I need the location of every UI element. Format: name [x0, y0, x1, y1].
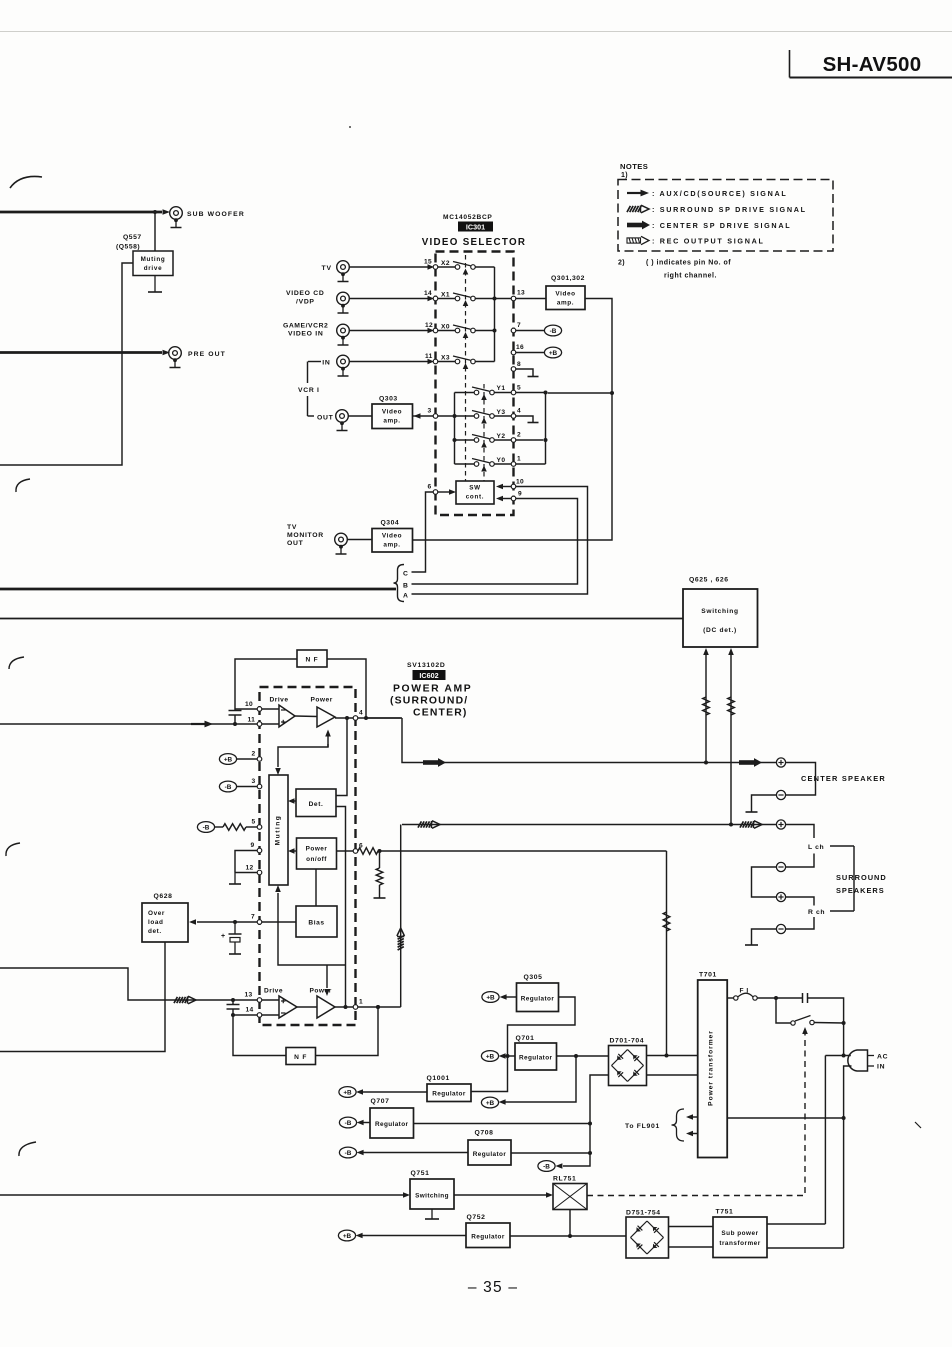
svg-text:Switching: Switching [701, 608, 738, 615]
wire bias to pin7 [262, 921, 296, 923]
-B supply pin3 [219, 781, 236, 792]
svg-text:+B: +B [343, 1089, 352, 1096]
arrowhead Q305 to +B [500, 994, 507, 1000]
svg-text:11: 11 [248, 717, 256, 724]
svg-text:11: 11 [425, 353, 433, 360]
wire A to pin10 [412, 487, 588, 595]
svg-text:-B: -B [345, 1120, 352, 1127]
svg-text:– 35 –: – 35 – [468, 1279, 518, 1296]
ground pin6 divider [374, 897, 386, 899]
center drive arrow 1 [423, 758, 446, 767]
wire plug top contact [825, 1055, 850, 1057]
wire Q625 sense center [705, 655, 707, 763]
wire drive to power top [295, 715, 317, 718]
svg-text:2): 2) [618, 260, 625, 267]
svg-text:Video: Video [382, 533, 402, 540]
svg-text:+B: +B [343, 1233, 352, 1240]
wire game to pin12 [350, 330, 429, 332]
resistor pin6 to ground [376, 851, 383, 898]
node surround line tap [729, 823, 733, 827]
svg-text:-B: -B [345, 1150, 352, 1157]
switch Y0 [455, 457, 512, 466]
wire cap stubs bottom [232, 1000, 234, 1015]
arrowhead down into power bottom [324, 989, 330, 996]
svg-text:4: 4 [359, 710, 363, 717]
svg-text:Y1: Y1 [497, 385, 506, 392]
terminal surround L+ [776, 820, 785, 829]
jack SUB WOOFER [170, 207, 183, 228]
arrowhead Q752 to +B [356, 1233, 363, 1239]
svg-text:X2: X2 [441, 260, 450, 267]
-B out Q707 [339, 1117, 356, 1128]
svg-text:IC602: IC602 [419, 671, 438, 680]
wire bus to pin13 [495, 298, 512, 300]
jack TV MONITOR OUT [335, 533, 348, 554]
wire power bottom bias [326, 965, 328, 988]
wire R- ground [752, 929, 777, 945]
wire FL901 upper [693, 1116, 698, 1118]
arrowhead into SW cont [449, 489, 456, 495]
ground pin8 [528, 376, 539, 378]
svg-text:+B: +B [486, 1100, 495, 1107]
svg-text:3: 3 [428, 408, 432, 415]
wire top amp input [0, 723, 257, 725]
wire switch branch [776, 998, 791, 1023]
wire T751 right upper [767, 1223, 825, 1225]
node RL751 supply tap [568, 1234, 572, 1238]
svg-text:-B: -B [550, 328, 557, 335]
svg-text:5: 5 [517, 385, 521, 392]
arrowhead pin15 [428, 264, 435, 270]
wire +B to pin2 [237, 758, 258, 760]
wire pin14 to NF bottom [233, 1015, 286, 1056]
wire bridge to T751 lower [669, 1246, 714, 1248]
arrowhead Q1001 to +B [356, 1089, 363, 1095]
wire bridge left lower [563, 1075, 609, 1166]
svg-text:7: 7 [251, 914, 255, 921]
wire resistor to pin5 [246, 826, 257, 828]
arrowhead into Q628 [189, 919, 196, 925]
wire power onoff to muting [290, 850, 297, 852]
resistor surround sense [728, 697, 735, 715]
wire Q305 left [506, 996, 517, 998]
node output NF bottom [376, 1005, 380, 1009]
switch Y1 [455, 385, 512, 395]
svg-text:TV: TV [287, 524, 297, 531]
wire NF top right [327, 659, 366, 718]
svg-text:A: A [403, 593, 408, 600]
+B out Q752 [338, 1230, 355, 1241]
svg-text:GAME/VCR2: GAME/VCR2 [283, 323, 328, 330]
svg-text:8: 8 [517, 361, 521, 368]
svg-text:Q557: Q557 [123, 234, 142, 241]
svg-text:(Q558): (Q558) [116, 244, 140, 251]
switch X0 [438, 324, 495, 333]
sub power transformer T751 [713, 1217, 767, 1258]
wire pin4 ground stub [516, 416, 533, 423]
pin labels IC301 right [516, 290, 525, 498]
svg-text:14: 14 [246, 1007, 254, 1014]
det block [296, 789, 336, 817]
svg-text:VIDEO IN: VIDEO IN [288, 331, 323, 338]
op-amp Drive bottom [279, 996, 297, 1018]
svg-text:T701: T701 [699, 972, 717, 979]
wire R+ stub [786, 897, 814, 906]
pin circles IC602 right [353, 716, 358, 1010]
wire Q305 input chain [471, 997, 575, 1092]
svg-text:+B: +B [549, 350, 558, 357]
control line X switches [463, 255, 469, 481]
svg-text:Y2: Y2 [497, 433, 506, 440]
svg-text:10: 10 [245, 701, 253, 708]
wire Q751 to RL751 [454, 1194, 546, 1196]
svg-text:X1: X1 [441, 292, 450, 299]
wire Q1001 left [363, 1091, 428, 1093]
capacitor top amp input [229, 711, 242, 716]
+B out Q701 [481, 1051, 498, 1062]
power on/off block [297, 838, 337, 869]
bridge rectifier D701-704 [609, 1046, 647, 1086]
Y input bus [454, 393, 456, 465]
pin circles IC602 left [257, 707, 262, 1018]
ground Q751 [425, 1209, 439, 1219]
svg-text:: REC OUTPUT SIGNAL: : REC OUTPUT SIGNAL [652, 236, 765, 245]
svg-text:/VDP: /VDP [296, 299, 315, 306]
svg-text:-B: -B [225, 784, 232, 791]
node AC hot plug tap [842, 1054, 846, 1058]
-B supply bridge rail [538, 1161, 555, 1172]
scan mark 3 [9, 657, 24, 669]
svg-text:3: 3 [252, 778, 256, 785]
wire bridge to T751 upper [669, 1226, 714, 1228]
wire NF top left to input cap [235, 659, 297, 710]
AC plug [848, 1050, 874, 1071]
wire Q625 sense surround [730, 655, 732, 825]
svg-text:Drive: Drive [264, 988, 283, 995]
label GAME/VCR2 VIDEO IN [283, 323, 328, 338]
svg-text:14: 14 [424, 290, 432, 297]
scan mark 2 [16, 479, 30, 492]
regulator block Q707 [370, 1108, 414, 1138]
wire Lch to brace [830, 845, 854, 847]
switch Y3 [455, 409, 512, 418]
svg-text:1): 1) [621, 172, 628, 179]
wire Rch to brace [830, 910, 854, 912]
wire det upper sense [336, 718, 347, 796]
VCR1 bracket [308, 362, 322, 417]
wire to muting drive [154, 212, 156, 251]
wire Q708 right [511, 1152, 590, 1154]
svg-text:Det.: Det. [309, 801, 324, 808]
svg-text:amp.: amp. [383, 542, 400, 549]
wire pin9 into SW cont [503, 498, 511, 500]
arrowhead Q701 to +B [499, 1053, 506, 1059]
svg-text:Video: Video [382, 409, 402, 416]
wire pre out feed [0, 351, 162, 354]
arrowhead into RL751 [546, 1192, 553, 1198]
Q625 text [701, 608, 738, 634]
NF block top [297, 650, 327, 667]
label Q557 [116, 234, 142, 251]
svg-text:13: 13 [517, 290, 525, 297]
svg-text:AC: AC [877, 1054, 888, 1061]
svg-text:Power: Power [306, 846, 328, 853]
SW cont text [466, 485, 485, 501]
svg-text:drive: drive [144, 265, 163, 272]
wire bridge right upper [647, 1055, 698, 1057]
node at x612 [610, 391, 614, 395]
svg-text:Y3: Y3 [497, 409, 506, 416]
video amp text [555, 291, 575, 307]
svg-text:VIDEO CD: VIDEO CD [286, 290, 324, 297]
svg-text:D701-704: D701-704 [610, 1038, 645, 1045]
wire pin7 to -B [516, 330, 545, 332]
svg-text:: SURROUND SP DRIVE SIGNAL: : SURROUND SP DRIVE SIGNAL [652, 205, 807, 214]
wire T751 right lower [767, 1247, 844, 1249]
svg-text:2: 2 [252, 751, 256, 758]
wire Q707 right [414, 1123, 591, 1125]
wire surround speaker line [402, 824, 776, 826]
jack PRE OUT [169, 347, 182, 368]
arrowhead FL901 upper [686, 1114, 693, 1120]
+B out Q1001 [339, 1087, 356, 1098]
svg-text:SW: SW [469, 485, 481, 492]
wire trunk to Q625 [0, 618, 683, 620]
wire CBA trunk [0, 588, 396, 591]
switching block Q751 [410, 1179, 454, 1209]
capacitor across switch [803, 993, 808, 1003]
regulator block Q752 [466, 1223, 510, 1248]
label POWER AMP [390, 684, 472, 719]
wire -B to resistor pin5 [215, 826, 223, 828]
wire pin6 line to right [380, 850, 667, 852]
wire pin1 to bus2 [516, 463, 546, 465]
svg-text:7: 7 [517, 322, 521, 329]
arrowhead det into muting [288, 798, 295, 804]
arrowhead pin10 to SW cont [496, 484, 503, 490]
wire bias feed [315, 869, 317, 906]
svg-text:CENTER): CENTER) [413, 708, 468, 719]
node output sense [345, 716, 349, 720]
arrowhead pin14 [428, 296, 435, 302]
-B supply pin5 [197, 822, 214, 833]
svg-text:amp.: amp. [383, 418, 400, 425]
wire pin14 to drive bottom [262, 1014, 279, 1016]
wire Q751 input [0, 1194, 403, 1196]
scan mark 5 [19, 1142, 36, 1156]
center drive arrow 2 [739, 758, 762, 767]
control line Y switches [481, 384, 487, 481]
node NF bottom tap [376, 1005, 380, 1009]
node bus2 top [544, 391, 548, 395]
muting drive text [141, 256, 166, 272]
switch X2 [438, 260, 495, 269]
bridge rectifier D751-754 [626, 1217, 669, 1258]
svg-text:Regulator: Regulator [375, 1121, 409, 1128]
label AC IN [877, 1054, 888, 1071]
wire R- stub [786, 917, 814, 929]
node input junction [233, 722, 237, 726]
wire surround output rise [400, 825, 402, 1008]
svg-text:Regulator: Regulator [432, 1091, 466, 1098]
bus2 vertical [545, 393, 547, 465]
wire OUT jack to Q303 [348, 415, 372, 417]
jack TV input [337, 261, 350, 282]
svg-text:Power transformer: Power transformer [708, 1030, 715, 1106]
scan mark 1 [10, 176, 42, 188]
notes legend box [618, 180, 833, 252]
wire NF bottom right [316, 1007, 379, 1056]
wire pin3 to Q303 [421, 415, 453, 417]
ground pin4 [528, 422, 539, 424]
terminal center - [776, 790, 785, 799]
svg-text:Q751: Q751 [411, 1170, 430, 1177]
jack VIDEO CD/VDP [337, 292, 350, 313]
svg-text:L ch: L ch [808, 844, 824, 851]
IC602 dashed outline [260, 687, 356, 1025]
arrowhead down into muting top [275, 768, 281, 775]
X output bus [494, 267, 496, 362]
wire det to muting [290, 800, 296, 802]
svg-text:Muting: Muting [275, 815, 282, 846]
svg-text:TV: TV [322, 265, 333, 272]
op-amp Drive top [279, 705, 295, 727]
svg-text:X3: X3 [441, 355, 450, 362]
scan mark 4 [6, 843, 20, 856]
wire arrowhead shaft [413, 415, 422, 417]
wire pin9 to ground rail [235, 851, 257, 873]
video amp block Q301,302 [546, 286, 585, 310]
arrowhead Q708 to -B [357, 1150, 364, 1156]
note 2 text [618, 260, 731, 280]
legend AUX/CD source signal arrow [627, 190, 649, 197]
svg-text:IC301: IC301 [466, 223, 485, 232]
wire pin5 row to bus2 [516, 392, 546, 394]
wire bottom amp input [0, 968, 257, 1000]
pin labels IC301 left [424, 259, 433, 491]
terminal surround R- [776, 924, 785, 933]
svg-text:NOTES: NOTES [620, 162, 648, 171]
scan tick [915, 1122, 921, 1128]
pin circles IC301 right [511, 296, 516, 501]
wire pin14 stub [233, 1014, 257, 1016]
node NF output junction [364, 716, 368, 720]
svg-text:Power: Power [311, 697, 333, 704]
wire pin13 to drive bottom [262, 999, 279, 1001]
svg-text:cont.: cont. [466, 494, 485, 501]
wire pin2 to bus2 [516, 439, 543, 441]
wire L- stub [786, 854, 814, 868]
+B out Q305 [482, 992, 499, 1003]
switch Y2 [455, 433, 512, 442]
arrowhead Q707 to -B [357, 1120, 364, 1126]
wire muting drive input [0, 263, 133, 465]
relay control dashed wire [587, 1034, 805, 1196]
wire vcr1 in to pin11 [350, 361, 429, 363]
fuse F1 [727, 993, 776, 1000]
surround drive arrow vertical [397, 928, 405, 950]
svg-text:+B: +B [486, 994, 495, 1001]
svg-text:Q304: Q304 [381, 520, 400, 527]
arrowhead into sub woofer jack [163, 209, 171, 215]
wire AC hot drop [843, 1023, 845, 1056]
wire muting bottom control [278, 893, 346, 965]
pin labels IC602 left [245, 701, 256, 1014]
page top rule [0, 31, 952, 33]
svg-text:N F: N F [294, 1054, 307, 1061]
svg-text:13: 13 [245, 992, 253, 999]
wire power onoff to pin6 [337, 850, 354, 852]
svg-text:PRE OUT: PRE OUT [188, 351, 226, 358]
wire arrowhead shaft power top [327, 736, 329, 747]
ground pins 9/12 [229, 873, 241, 885]
svg-text:T751: T751 [716, 1209, 734, 1216]
arrowhead relay to switch [802, 1027, 808, 1034]
svg-text:D751-754: D751-754 [626, 1210, 661, 1217]
regulator block Q1001 [427, 1084, 471, 1102]
muting block [269, 775, 288, 885]
wire center speaker line [402, 718, 776, 763]
svg-text:Regulator: Regulator [471, 1234, 505, 1241]
svg-text:Over: Over [148, 910, 165, 917]
wire bus2 to video amp junction [548, 392, 612, 394]
arrowhead to -B bridge [555, 1163, 562, 1169]
power switch S [791, 1016, 814, 1026]
svg-text:Switching: Switching [415, 1193, 449, 1200]
wire cap to corner [808, 998, 844, 1023]
overload det text [148, 910, 165, 935]
svg-text:+B: +B [224, 756, 233, 763]
brace FL901 [672, 1109, 685, 1141]
svg-text:on/off: on/off [306, 856, 327, 863]
svg-text:N F: N F [305, 657, 318, 664]
svg-text:X0: X0 [441, 324, 450, 331]
terminal surround L- [776, 862, 785, 871]
wire Q707 left [363, 1122, 370, 1124]
wire jack to Q304 [347, 539, 372, 541]
svg-text:load: load [148, 919, 164, 926]
svg-text:Video: Video [555, 291, 575, 298]
arrowhead into Q751 [403, 1192, 410, 1198]
svg-text:Regulator: Regulator [473, 1151, 507, 1158]
amp Power top [317, 707, 335, 727]
svg-text:( ) indicates pin No. of: ( ) indicates pin No. of [646, 260, 731, 267]
wire B to pin9 [412, 499, 578, 585]
svg-text:To FL901: To FL901 [625, 1123, 660, 1130]
node at transformer line [665, 1054, 669, 1058]
svg-text:6: 6 [428, 484, 432, 491]
muting drive block Q557 [133, 251, 173, 276]
arrowhead into Q625 left [703, 648, 709, 655]
wire T701 right bottom [727, 1117, 843, 1119]
svg-text:SUB WOOFER: SUB WOOFER [187, 211, 245, 218]
switch X1 [438, 292, 495, 301]
wire center minus ground [752, 795, 777, 812]
node pin7 cap [233, 920, 237, 924]
svg-text:-B: -B [543, 1163, 550, 1170]
svg-text:(DC det.): (DC det.) [703, 627, 737, 634]
svg-text:POWER AMP: POWER AMP [393, 684, 472, 695]
wire +B tap lower [506, 1056, 577, 1102]
svg-text:SURROUND: SURROUND [836, 873, 887, 882]
node Q707 tap [588, 1122, 592, 1126]
svg-text:1: 1 [359, 999, 363, 1006]
terminal surround R+ [776, 892, 785, 901]
notes heading [620, 162, 648, 179]
wire pin10 into SW cont [503, 486, 511, 488]
ground center minus [746, 811, 758, 813]
svg-text:Muting: Muting [141, 256, 166, 263]
